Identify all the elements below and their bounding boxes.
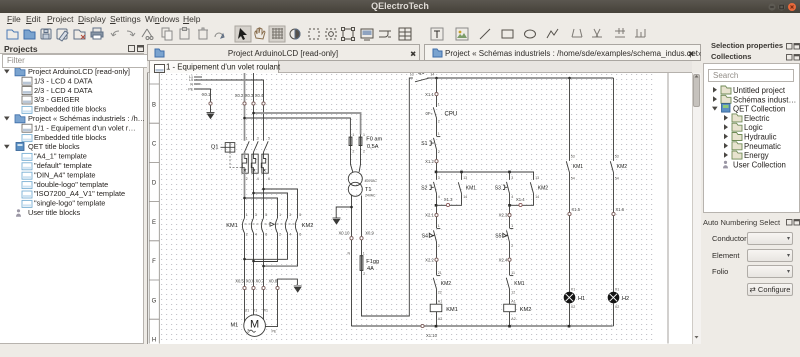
ground T1 earth symbol [333, 218, 341, 224]
svg-text:A2: A2 [511, 317, 515, 321]
svg-text:14: 14 [463, 194, 467, 198]
svg-text:2: 2 [246, 232, 248, 236]
limit switch S5 NC [503, 228, 514, 241]
pushbutton S1 NC [429, 136, 440, 149]
svg-text:User Collection: User Collection [733, 160, 786, 169]
wire L1 to KM2 pole 1 [245, 198, 278, 218]
wire KM2 pole2 out to L1 [244, 233, 288, 259]
svg-text:CPU: CPU [445, 111, 458, 117]
svg-text:X1.2: X1.2 [425, 158, 434, 163]
svg-text:Hydraulic: Hydraulic [744, 133, 777, 142]
svg-text:2: 2 [279, 232, 281, 236]
svg-text:KM2: KM2 [441, 280, 452, 286]
svg-text:KM2: KM2 [538, 185, 549, 191]
wire X0.8 to motor PE [265, 289, 277, 326]
svg-text:2: 2 [511, 243, 513, 247]
svg-text:12: 12 [511, 290, 515, 294]
terminal X0.7 [262, 286, 265, 289]
wire to fuse F0 right (highlighted) [254, 113, 361, 134]
svg-text:KM2: KM2 [520, 307, 532, 313]
contact KM2 53-54 NO [610, 161, 613, 172]
select options [326, 29, 336, 39]
left dock: Projects panel [4, 44, 38, 54]
svg-text:4: 4 [255, 232, 257, 236]
svg-text:1: 1 [246, 136, 248, 140]
align 1 [572, 29, 582, 37]
contrast [290, 29, 300, 39]
svg-text:"ISO7200_A4_V1" template: "ISO7200_A4_V1" template [34, 189, 125, 198]
select tool (pressed) [235, 26, 251, 42]
rotate [215, 33, 223, 37]
titleblock table [399, 28, 411, 40]
svg-text:Q1: Q1 [418, 73, 425, 76]
wire branch rail [437, 171, 535, 173]
svg-text:X0.4: X0.4 [255, 92, 264, 97]
ground near motor earth symbol [294, 286, 302, 292]
terminal X2.1 [435, 213, 438, 216]
svg-text:X2: X2 [571, 305, 575, 309]
svg-text:A1: A1 [511, 299, 515, 303]
node out L1 [243, 257, 246, 260]
wire L1 stub [194, 76, 202, 78]
wire X0.9 to F1 [361, 240, 363, 256]
add rectangle [502, 30, 513, 38]
svg-text:KM2: KM2 [302, 222, 314, 228]
svg-text:Schémas indust…: Schémas indust… [733, 95, 796, 104]
thermal x marks [244, 169, 266, 171]
svg-text:54: 54 [615, 176, 619, 180]
add ellipse [525, 30, 536, 38]
ground PE earth symbol [207, 112, 215, 118]
paste [180, 29, 189, 39]
svg-text:2: 2 [363, 272, 365, 276]
svg-text:13: 13 [463, 176, 467, 180]
node S3 KM2 join [508, 204, 511, 207]
thermal element Q1 pole 1 [242, 152, 248, 218]
svg-text:1/1 - Equipement d'un volet r…: 1/1 - Equipement d'un volet r… [34, 123, 136, 132]
svg-text:KM1: KM1 [514, 280, 525, 286]
svg-text:4: 4 [511, 194, 513, 198]
terminal X0.9 [360, 236, 363, 239]
svg-text:3: 3 [247, 328, 250, 333]
svg-text:F1gg: F1gg [366, 259, 379, 265]
wire S5 to X2.4 [509, 242, 511, 258]
sub tab row [147, 61, 692, 73]
contact CPU 0F [433, 107, 436, 118]
wire N bus [352, 325, 613, 327]
add text [431, 28, 443, 40]
svg-text:X0.7: X0.7 [255, 278, 264, 283]
wire rail to KM1 aux [461, 172, 463, 180]
svg-text:F: F [152, 259, 156, 265]
svg-text:Embedded title blocks: Embedded title blocks [34, 133, 107, 142]
add line [480, 29, 490, 39]
terminal X0.5 [243, 286, 246, 289]
svg-text:U1: U1 [245, 308, 250, 312]
contactor KM1 poles [242, 218, 263, 286]
svg-text:X0.10: X0.10 [339, 230, 351, 235]
svg-text:B: B [152, 102, 156, 108]
wire KM2 pole1 out to L2 [253, 233, 277, 262]
wire rail to S2 [436, 172, 438, 180]
svg-text:1: 1 [438, 102, 440, 106]
svg-text:S3: S3 [495, 185, 501, 191]
contact KM1 aux NC [506, 275, 513, 288]
terminal X1.6 [612, 212, 615, 215]
svg-text:Untitled project: Untitled project [733, 86, 786, 95]
wire X1.6 to H2 [613, 215, 615, 291]
svg-text:KM1: KM1 [446, 307, 458, 313]
svg-text:Embedded title blocks: Embedded title blocks [34, 105, 107, 114]
svg-text:Project « Schémas industriels: Project « Schémas industriels : /h… [28, 114, 144, 123]
svg-text:2: 2 [438, 150, 440, 154]
frame [343, 29, 353, 39]
svg-text:1: 1 [279, 212, 281, 216]
svg-text:Electric: Electric [744, 114, 770, 123]
svg-text:X0.5: X0.5 [235, 278, 244, 283]
svg-text:G: G [152, 298, 157, 304]
align 3 [615, 28, 625, 37]
node on L3 [262, 187, 265, 190]
svg-text:21: 21 [438, 270, 442, 274]
svg-text:14: 14 [535, 194, 539, 198]
node T1 earth [350, 205, 353, 208]
svg-text:0,5A: 0,5A [367, 144, 379, 150]
transformer T1 [348, 171, 362, 196]
svg-text:2: 2 [363, 149, 365, 153]
terminal X1.4 [519, 203, 522, 206]
breaker Q1 pole 3 blade [264, 141, 269, 152]
wire F1 to control rail [362, 77, 410, 316]
wire PE feed [194, 89, 211, 102]
thermal element Q1 pole 3 [261, 152, 268, 218]
wire X0.8 up to earth [278, 279, 298, 286]
svg-text:3: 3 [255, 212, 257, 216]
svg-text:1: 1 [352, 133, 354, 137]
wire X1.1 to CPU contact [436, 95, 438, 106]
svg-text:"A4_1" template: "A4_1" template [34, 152, 87, 161]
svg-text:1: 1 [511, 223, 513, 227]
thermal element Q1 pole 2 [251, 152, 258, 218]
terminal X0.10 [350, 236, 353, 239]
svg-text:A1: A1 [438, 299, 442, 303]
svg-text:1: 1 [438, 131, 440, 135]
new project [7, 30, 18, 39]
breaker Q1 box [221, 142, 235, 152]
wire phase L2 drop [253, 73, 255, 102]
pushbutton S3 NO [503, 181, 510, 193]
svg-text:54: 54 [571, 176, 575, 180]
wire KM2 53 branch [613, 78, 615, 161]
svg-text:X1: X1 [615, 287, 619, 291]
svg-text:F0 am: F0 am [366, 136, 382, 142]
node on L2 [252, 191, 255, 194]
svg-text:5: 5 [265, 212, 267, 216]
save [41, 29, 51, 39]
interlock symbol [270, 222, 274, 226]
svg-text:W1: W1 [263, 308, 268, 312]
wire F0-1 to T1 [351, 147, 353, 171]
fuse F0 pole 2 [359, 134, 362, 148]
svg-text:11: 11 [511, 270, 515, 274]
wire S4 to X2.2 [436, 242, 438, 258]
limit switch S4 NC [429, 228, 440, 241]
close file [74, 30, 85, 39]
svg-text:X2.4: X2.4 [499, 257, 508, 262]
undo [111, 31, 119, 36]
node branch S2 [435, 170, 438, 173]
wire W1 to motor [263, 289, 265, 321]
KM1-KM2 mechanical interlock dashed [245, 223, 297, 225]
svg-text:D: D [152, 180, 157, 186]
svg-text:C: C [152, 141, 157, 147]
node junction on X0.3 wire [252, 111, 255, 114]
wire KM2 NC to coil [436, 289, 438, 304]
lamp H1 [564, 292, 575, 303]
svg-text:1: 1 [438, 223, 440, 227]
lamp H2 [608, 292, 619, 303]
svg-text:3: 3 [257, 136, 259, 140]
svg-text:4: 4 [289, 232, 291, 236]
svg-text:Energy: Energy [744, 151, 769, 160]
wire X2.4 to KM1 NC [509, 261, 511, 275]
terminal X0.8 [276, 286, 279, 289]
grid (pressed) [269, 26, 285, 42]
svg-text:Q1: Q1 [211, 144, 218, 150]
terminal X1.5 [568, 212, 571, 215]
svg-text:"single-logo" template: "single-logo" template [34, 199, 105, 208]
svg-text:X0.3: X0.3 [245, 92, 254, 97]
svg-text:13: 13 [535, 176, 539, 180]
wire N stub [194, 83, 201, 85]
breaker Q1 pole 2 blade [254, 141, 259, 152]
svg-text:3/3 - GEIGER: 3/3 - GEIGER [34, 95, 80, 104]
svg-text:X1.10: X1.10 [426, 333, 438, 338]
svg-text:User title blocks: User title blocks [28, 208, 80, 217]
svg-text:✖: ✖ [688, 50, 695, 59]
wire S1 to X1.2 [436, 149, 438, 159]
vertical scrollbar of canvas [692, 73, 701, 344]
window buttons [766, 2, 798, 13]
contact KM2 aux NO [530, 182, 533, 193]
svg-text:E: E [152, 219, 156, 225]
wire CPU to S1 [436, 118, 438, 136]
svg-text:5: 5 [299, 212, 301, 216]
wire T1 secondary L [361, 195, 363, 236]
svg-text:1: 1 [363, 251, 365, 255]
toolbar [0, 24, 800, 44]
svg-text:H1: H1 [578, 295, 585, 301]
wire L3 to KM2 pole 3 [264, 189, 298, 218]
svg-text:L3: L3 [189, 77, 193, 81]
svg-text:S1: S1 [421, 141, 427, 147]
wire rail to S3 [509, 172, 511, 180]
copy [162, 28, 169, 37]
wire X0.4 to Q1 [263, 105, 265, 141]
wire X1.2 down [436, 163, 438, 172]
svg-text:H: H [152, 337, 156, 343]
wire S2 out [436, 193, 438, 205]
node rail KM1 branch [568, 76, 571, 79]
svg-text:A2: A2 [438, 317, 442, 321]
svg-text:1: 1 [363, 133, 365, 137]
wire X1.5 to H1 [569, 215, 571, 291]
terminal X2.2 [435, 258, 438, 261]
contact KM1 53-54 NO [566, 161, 569, 172]
contactor KM2 poles [275, 218, 297, 233]
wire X0.3 to Q1 [253, 105, 255, 141]
svg-text:X2: X2 [615, 305, 619, 309]
svg-text:14: 14 [430, 73, 434, 76]
terminal X1.10 [421, 324, 424, 327]
node junction on X0.2 wire [243, 116, 246, 119]
wire KM1 NC to coil [509, 289, 511, 304]
svg-text:Project « Schémas industriels: Project « Schémas industriels : /home/sd… [445, 49, 701, 58]
svg-text:2: 2 [246, 177, 248, 181]
wire KM1 coil to N bus [436, 311, 438, 326]
svg-text:N: N [190, 82, 193, 86]
svg-text:T1: T1 [365, 187, 372, 193]
svg-text:400VAC: 400VAC [365, 178, 378, 182]
coil KM2 [504, 304, 516, 312]
svg-text:X2.1: X2.1 [425, 212, 434, 217]
wire F0-2 to T1 [359, 147, 360, 171]
svg-text:13: 13 [410, 73, 414, 76]
wire L1 thermal gray overlay [244, 152, 246, 198]
wire X2.2 to KM2 NC [436, 261, 438, 275]
wire KM2 54 to X1.6 [613, 172, 615, 212]
node branch KM1 aux [460, 170, 463, 173]
svg-text:Pneumatic: Pneumatic [744, 142, 781, 151]
svg-text:4: 4 [257, 177, 259, 181]
svg-text:N: N [348, 251, 351, 255]
motor M1 [244, 314, 266, 336]
svg-text:2: 2 [352, 149, 354, 153]
node KM1 coil bus [435, 324, 438, 327]
terminal X2.3 [508, 213, 511, 216]
pushbutton S2 NO [429, 181, 436, 193]
contact KM2 aux NC [433, 275, 440, 288]
svg-text:2: 2 [438, 119, 440, 123]
svg-text:KM1: KM1 [226, 222, 238, 228]
svg-text:3: 3 [438, 176, 440, 180]
terminal X0.4 [262, 101, 265, 104]
node rail descend [435, 76, 438, 79]
wire KM1 53 branch [569, 78, 571, 161]
terminal X0.1 [209, 101, 212, 104]
svg-text:KM2: KM2 [617, 163, 628, 169]
contact Q1 aux 13-14 [410, 78, 437, 82]
svg-text:M1: M1 [231, 322, 239, 328]
Q1 linkage dashed [230, 152, 242, 168]
wire H1 to N bus [569, 302, 571, 325]
node out L2 [252, 259, 255, 262]
svg-text:X0.6: X0.6 [246, 278, 255, 283]
coil KM1 [430, 304, 442, 312]
svg-text:X1.6: X1.6 [616, 207, 625, 212]
svg-text:0F⌁: 0F⌁ [426, 110, 434, 115]
wire phase L1 drop (highlighted) [244, 73, 246, 102]
svg-text:"default" template: "default" template [34, 161, 92, 170]
svg-text:"double-logo" template: "double-logo" template [34, 180, 108, 189]
node S2 KM1 join [435, 204, 438, 207]
fuse F1gg [360, 255, 363, 270]
svg-text:X0.2: X0.2 [235, 92, 244, 97]
save as [57, 29, 67, 39]
wire T1 earth branch [336, 207, 351, 218]
right dock [711, 41, 783, 50]
svg-text:KM1: KM1 [573, 163, 584, 169]
wire X0.2 to Q1 (highlighted) [244, 105, 246, 141]
svg-text:3: 3 [289, 212, 291, 216]
align 4 [635, 29, 645, 37]
svg-text:Project ArduinoLCD [read-only]: Project ArduinoLCD [read-only] [28, 68, 130, 76]
wire V1 to motor [253, 289, 255, 314]
wire L3 feed [194, 80, 264, 102]
node H1 bus [568, 324, 571, 327]
svg-text:H2: H2 [622, 295, 629, 301]
svg-text:3: 3 [511, 176, 513, 180]
wire T1 secondary N [351, 195, 353, 236]
terminal X0.3 [252, 101, 255, 104]
svg-text:S4: S4 [422, 233, 428, 239]
svg-text:6: 6 [268, 177, 270, 181]
add polyline [547, 29, 558, 38]
status bar [0, 344, 800, 357]
terminal X1.2 [435, 159, 438, 162]
wire KM2 pole3 out to L3 [263, 233, 297, 266]
terminal X1.3 [446, 203, 449, 206]
svg-text:22: 22 [438, 290, 442, 294]
terminal X2.4 [508, 258, 511, 261]
svg-text:24VAC: 24VAC [365, 193, 376, 197]
wire KM2 coil to N bus [509, 311, 511, 326]
svg-text:X1.4: X1.4 [516, 196, 525, 201]
align 2 [592, 29, 602, 37]
wire to fuse F0 left [245, 118, 351, 134]
wire KM1 54 to X1.5 [569, 172, 571, 212]
svg-text:"DIN_A4" template: "DIN_A4" template [34, 170, 96, 179]
terminal X0.2 [243, 101, 246, 104]
conductor crossing [379, 31, 391, 37]
select area [309, 29, 319, 39]
cut [142, 29, 152, 37]
svg-text:5: 5 [268, 136, 270, 140]
svg-text:PE: PE [272, 329, 277, 333]
svg-text:X0.1: X0.1 [202, 91, 211, 96]
breaker Q1 pole 1 blade [245, 141, 250, 152]
svg-text:✖: ✖ [410, 50, 417, 59]
wire to X2.3 [509, 205, 511, 213]
wire S3 out [509, 193, 511, 205]
wire KM1 aux out [436, 193, 462, 205]
svg-text:S2: S2 [421, 185, 427, 191]
svg-text:4A: 4A [367, 266, 374, 272]
wire to X2.1 [436, 205, 438, 213]
svg-text:4: 4 [438, 194, 440, 198]
svg-text:2/3 - LCD 4 DATA: 2/3 - LCD 4 DATA [34, 86, 93, 95]
svg-text:X1.5: X1.5 [572, 207, 581, 212]
menu bar [0, 13, 800, 24]
svg-text:X1.1: X1.1 [425, 91, 434, 96]
svg-text:2: 2 [438, 243, 440, 247]
svg-text:X2.2: X2.2 [425, 257, 434, 262]
svg-text:X1.3: X1.3 [444, 196, 453, 201]
redo [127, 31, 135, 36]
svg-text:X2.3: X2.3 [499, 212, 508, 217]
delete [199, 30, 207, 39]
svg-text:1/3 - LCD 4 DATA: 1/3 - LCD 4 DATA [34, 76, 93, 85]
